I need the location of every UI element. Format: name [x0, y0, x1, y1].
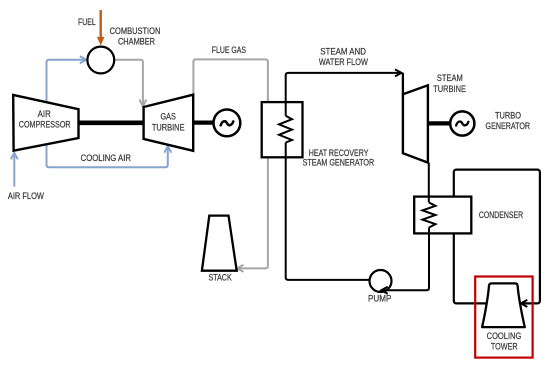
- svg-text:GAS: GAS: [161, 112, 177, 122]
- flue gas line to stack: [193, 59, 268, 272]
- svg-text:COMBUSTION: COMBUSTION: [110, 26, 161, 36]
- steam turbine: [403, 85, 428, 162]
- shaft steam turbine to turbo generator: [428, 121, 451, 125]
- svg-text:AIR: AIR: [38, 109, 51, 119]
- hrsg coil: [279, 116, 292, 143]
- fuel arrow: [97, 10, 105, 46]
- label COOLING TOWER: [487, 331, 522, 352]
- hrsg box: [262, 102, 303, 157]
- feedwater line hrsg to pump: [286, 143, 370, 280]
- steam turbine inlet stub: [402, 73, 404, 94]
- arrow into cooling tower: [521, 300, 528, 307]
- condensate line turbine to condenser: [428, 163, 430, 203]
- svg-text:CHAMBER: CHAMBER: [118, 36, 155, 46]
- label STEAM AND WATER FLOW: [319, 46, 369, 67]
- svg-text:GENERATOR: GENERATOR: [486, 121, 531, 131]
- turbo generator G2: [450, 111, 474, 135]
- svg-text:FUEL: FUEL: [78, 17, 96, 27]
- condensate line condenser to pump: [381, 228, 429, 294]
- svg-text:COMPRESSOR: COMPRESSOR: [19, 120, 71, 130]
- pump P1: [370, 270, 392, 292]
- condenser coil: [423, 203, 436, 228]
- gas turbine: [144, 95, 194, 151]
- combustion chamber: [87, 47, 114, 74]
- svg-text:FLUE GAS: FLUE GAS: [212, 45, 246, 55]
- shaft gas turbine to generator: [193, 120, 213, 124]
- cooling tower: [482, 283, 525, 327]
- svg-text:STEAM AND: STEAM AND: [320, 46, 366, 56]
- label AIR COMPRESSOR: [19, 109, 71, 129]
- cooling water loop: [454, 170, 540, 304]
- svg-text:HEAT RECOVERY: HEAT RECOVERY: [309, 148, 369, 158]
- steam line to turbine: [286, 69, 402, 115]
- svg-text:STACK: STACK: [209, 272, 232, 282]
- cooling air line: [47, 56, 172, 167]
- shaft compressor to gas turbine: [78, 121, 145, 126]
- svg-text:CONDENSER: CONDENSER: [479, 210, 523, 220]
- svg-text:STEAM GENERATOR: STEAM GENERATOR: [303, 158, 375, 168]
- stack: [202, 216, 237, 271]
- svg-text:PUMP: PUMP: [368, 294, 391, 304]
- condenser box: [414, 197, 471, 234]
- label STEAM TURBINE: [433, 73, 466, 94]
- svg-text:TURBO: TURBO: [495, 111, 521, 121]
- svg-text:STEAM: STEAM: [437, 73, 463, 83]
- svg-text:TURBINE: TURBINE: [152, 122, 185, 132]
- svg-text:COOLING AIR: COOLING AIR: [81, 153, 131, 163]
- generator G1: [214, 110, 241, 137]
- air compressor: [13, 95, 78, 151]
- svg-text:WATER FLOW: WATER FLOW: [319, 57, 369, 67]
- label COMBUSTION CHAMBER: [110, 26, 161, 46]
- air flow arrow: [11, 153, 18, 187]
- flue gas line to gas turbine: [114, 60, 146, 106]
- label TURBO GENERATOR: [486, 111, 531, 132]
- svg-text:AIR FLOW: AIR FLOW: [8, 191, 45, 201]
- label GAS TURBINE: [152, 112, 185, 133]
- svg-text:COOLING: COOLING: [487, 331, 522, 341]
- label HEAT RECOVERY STEAM GENERATOR: [303, 148, 375, 168]
- red highlight box: [475, 277, 532, 358]
- svg-text:TOWER: TOWER: [491, 342, 518, 352]
- svg-text:TURBINE: TURBINE: [433, 84, 466, 94]
